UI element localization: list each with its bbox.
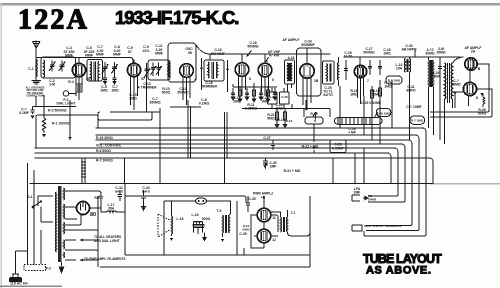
transformer T-3 IF	[204, 60, 224, 81]
wire y120 box	[100, 112, 152, 120]
svg-text:C-26: C-26	[281, 95, 288, 99]
wire output tubes right	[453, 57, 493, 112]
bus wire screen y144	[100, 144, 405, 184]
svg-text:56: 56	[188, 51, 192, 55]
svg-text:R-2 50000Ω: R-2 50000Ω	[48, 109, 67, 113]
svg-text:R-1 10000Ω: R-1 10000Ω	[52, 122, 71, 126]
wire nested drops	[364, 184, 426, 237]
speaker field coil L-16	[171, 216, 174, 234]
svg-text:L-18: L-18	[192, 213, 199, 217]
svg-text:R-6 600Ω: R-6 600Ω	[96, 149, 111, 153]
svg-text:122A: 122A	[18, 5, 89, 36]
tube V6 AVC 2B7	[300, 64, 314, 78]
main B+ line y183.5	[30, 183, 432, 185]
frame rules (decorative)	[0, 3, 500, 5]
svg-text:TRIM: TRIM	[432, 75, 440, 79]
wire ladder left entry	[36, 115, 38, 148]
svg-text:R-22 + MΩ: R-22 + MΩ	[302, 145, 319, 149]
svg-text:0.1MF: 0.1MF	[19, 111, 29, 115]
svg-text:2B: 2B	[314, 79, 319, 83]
capacitor C-22	[273, 88, 277, 100]
svg-text:2A: 2A	[471, 50, 476, 54]
svg-text:1MΩ: 1MΩ	[261, 100, 269, 104]
svg-text:T-9: T-9	[217, 209, 222, 213]
transformer T-2	[87, 60, 102, 82]
capacitor box C-28b	[330, 140, 346, 153]
bus wire heater A y128	[96, 128, 426, 184]
wire P1P2 links	[251, 196, 264, 248]
tube V9 output 2A5	[463, 82, 476, 95]
svg-text:C-35: C-35	[239, 232, 246, 236]
svg-text:R-31 + MΩ: R-31 + MΩ	[284, 169, 301, 173]
fuse block dashed	[24, 265, 46, 271]
resistor R-13	[266, 86, 269, 102]
svg-text:MMF: MMF	[96, 53, 104, 57]
svg-text:80: 80	[90, 212, 96, 218]
ground (antenna coil)	[32, 81, 41, 85]
resistor R-19	[371, 86, 374, 104]
choke L-9	[410, 59, 411, 73]
svg-text:4-18: 4-18	[288, 56, 295, 60]
wire antenna stem	[35, 48, 37, 59]
svg-text:8MFD: 8MFD	[115, 189, 124, 193]
trimmer C-4	[102, 62, 109, 74]
svg-text:C-? 10MF: C-? 10MF	[406, 105, 421, 109]
svg-text:R-15: R-15	[286, 119, 293, 123]
vertical pair x188	[188, 100, 191, 158]
capacitor C-3	[42, 95, 46, 133]
svg-text:TRIMMER: TRIMMER	[201, 85, 217, 89]
tube V2 1st det 57	[127, 63, 140, 76]
vertical x340	[339, 86, 341, 128]
svg-text:25MΩ: 25MΩ	[436, 51, 446, 55]
svg-text:7: 7	[367, 79, 369, 83]
svg-text:SPKR: SPKR	[368, 197, 377, 201]
grid clip V5	[266, 57, 269, 62]
bus wire cathode y148	[35, 148, 398, 184]
coil T-1 secondary	[44, 60, 45, 77]
svg-text:1933-IF.175-K.C.: 1933-IF.175-K.C.	[115, 7, 238, 28]
coil L-osc	[167, 62, 170, 78]
tube V5 2nd det 57	[258, 63, 272, 77]
vertical pair x225	[225, 112, 228, 184]
svg-text:30MΩ: 30MΩ	[425, 52, 435, 56]
capacitor C-27	[271, 140, 275, 150]
svg-text:T-1: T-1	[291, 211, 296, 215]
trimmer C-6	[111, 62, 118, 74]
resistor box R-24b	[386, 76, 402, 84]
wire x124.6 drop	[124, 158, 126, 184]
tube V4 IF 58	[235, 63, 249, 77]
wire V7 top	[359, 57, 361, 66]
resistor R-11	[238, 86, 241, 102]
capacitor C-29	[438, 57, 442, 140]
svg-text:11: 11	[272, 216, 276, 220]
svg-text:0.05MF: 0.05MF	[332, 147, 344, 151]
resistor R-12	[252, 86, 255, 102]
wire x125 drop	[124, 184, 126, 213]
wire B+ feed right	[244, 196, 248, 255]
svg-text:A TRIMMER: A TRIMMER	[137, 86, 157, 90]
wire top rail left y57.5	[36, 58, 133, 64]
capacitor C-34	[141, 190, 146, 210]
svg-text:2MΩ: 2MΩ	[129, 97, 137, 101]
choke L-17	[107, 211, 116, 212]
capacitor C-2 left	[30, 107, 34, 115]
potentiometer R-22	[305, 117, 323, 124]
svg-text:CONNECTION: CONNECTION	[26, 94, 44, 98]
svg-text:C-1: C-1	[28, 67, 34, 71]
capacitor C-35	[237, 196, 250, 255]
svg-text:C-29 0.02MF: C-29 0.02MF	[361, 101, 381, 105]
variable capacitor C-1	[49, 61, 56, 72]
svg-text:1MΩ: 1MΩ	[383, 52, 391, 56]
variable capacitor C-2	[59, 61, 66, 72]
transformer L-18	[194, 221, 203, 222]
shield box V6	[297, 48, 322, 96]
svg-text:500MΩ: 500MΩ	[247, 45, 258, 49]
grid clip C-18	[247, 51, 252, 57]
resistor R-14	[275, 108, 279, 128]
svg-text:C-24: C-24	[269, 95, 276, 99]
svg-text:R-23: R-23	[310, 112, 317, 116]
svg-text:MMF: MMF	[85, 54, 93, 58]
svg-text:8MFD: 8MFD	[142, 189, 151, 193]
svg-text:2MΩ: 2MΩ	[233, 100, 241, 104]
svg-text:8: 8	[249, 77, 251, 81]
connector TO SPKR	[352, 195, 368, 201]
svg-text:20MΩ: 20MΩ	[371, 93, 381, 97]
wire output to P tubes	[271, 210, 288, 236]
capacitor C-17	[368, 60, 372, 75]
svg-text:115 AC 60~: 115 AC 60~	[10, 282, 29, 286]
wire heater loop 1	[65, 230, 98, 240]
svg-text:1-M: 1-M	[49, 83, 55, 87]
svg-text:1MΩ: 1MΩ	[384, 85, 392, 89]
T-7 secondary heater 2	[63, 240, 66, 249]
coil T-1 primary	[36, 59, 37, 80]
svg-text:C-30 1MΩ: C-30 1MΩ	[377, 112, 392, 116]
bus wire heater B y135	[96, 135, 419, 184]
resistor R-15	[283, 108, 287, 128]
wire top rail right y57	[344, 56, 460, 58]
svg-text:S-1: S-1	[27, 195, 32, 199]
capacitor C-7 to ground	[112, 74, 116, 84]
wire V1 plate top	[78, 58, 80, 64]
svg-text:1MΩ: 1MΩ	[275, 107, 283, 111]
wire right mid verticals	[372, 50, 415, 144]
svg-text:12: 12	[272, 238, 276, 242]
T-7 secondary heater 1	[63, 222, 66, 234]
wire T-3 right lead	[227, 60, 229, 92]
pilot lamp P-1	[63, 91, 69, 97]
capacitor C-25b	[344, 60, 348, 80]
svg-text:DIAL LIGHT: DIAL LIGHT	[57, 102, 77, 106]
svg-text:0.1MΩ: 0.1MΩ	[199, 102, 210, 106]
transformer T-4	[285, 60, 295, 84]
wire V3 cathode	[170, 106, 201, 108]
svg-text:C-27: C-27	[263, 136, 270, 140]
svg-text:L-16: L-16	[177, 217, 184, 221]
tube P2 output 45	[257, 229, 271, 243]
resistor R-28	[469, 94, 485, 107]
svg-text:1MF: 1MF	[270, 165, 277, 169]
svg-text:RECT: RECT	[94, 196, 104, 200]
svg-text:R-? 1MΩ: R-? 1MΩ	[388, 79, 401, 83]
wire y110.5	[242, 104, 330, 117]
svg-text:8MFD: 8MFD	[406, 89, 416, 93]
wire V5 grid cap	[264, 54, 266, 63]
svg-text:+ MF: + MF	[348, 131, 356, 135]
svg-text:5: 5	[272, 78, 274, 82]
bus wire AVC y140	[96, 140, 412, 184]
resistor R-4 cathode	[76, 84, 82, 92]
svg-text:350MΩ: 350MΩ	[149, 101, 160, 105]
resistor R-20	[379, 80, 382, 104]
T-7 secondary heater 3	[63, 252, 66, 258]
capacitor C-8 trimmer	[144, 63, 150, 79]
svg-text:0.25MΩ: 0.25MΩ	[245, 107, 257, 111]
capacitor C-20	[245, 88, 249, 100]
tube P1 output 45	[257, 208, 271, 222]
resistor R-8 divider	[81, 158, 125, 184]
svg-text:TO PWR AMPL FILAMENTS: TO PWR AMPL FILAMENTS	[84, 257, 126, 261]
svg-text:3: 3	[194, 78, 196, 82]
svg-text:58: 58	[86, 77, 90, 81]
svg-text:R-? 1MΩ: R-? 1MΩ	[411, 119, 424, 123]
svg-text:1MΩ: 1MΩ	[111, 89, 119, 93]
svg-text:AS ABOVE.: AS ABOVE.	[366, 265, 432, 277]
wire V6 top	[306, 48, 308, 64]
svg-text:VOL. CONTROL: VOL. CONTROL	[96, 144, 122, 148]
svg-text:MMF: MMF	[65, 54, 73, 58]
interstage transformer T-6a	[428, 60, 431, 87]
svg-text:R-14: R-14	[277, 118, 284, 122]
svg-text:500Ω: 500Ω	[242, 227, 250, 231]
bus wire B+ y153	[35, 153, 391, 184]
svg-text:500Ω: 500Ω	[162, 91, 171, 95]
ground arrow transformer	[61, 262, 63, 266]
shield box tuning section 1	[41, 57, 76, 78]
wire grid rail y54	[196, 45, 330, 60]
svg-text:+B: +B	[261, 196, 266, 200]
AC plug	[10, 274, 22, 282]
svg-text:10-50: 10-50	[344, 55, 353, 59]
wire x489 down corner	[430, 110, 492, 117]
wire V4 grid cap	[241, 54, 243, 62]
svg-text:500MMF: 500MMF	[301, 43, 314, 47]
svg-text:1MΩ: 1MΩ	[100, 89, 108, 93]
tube V7 AF 56	[354, 65, 366, 77]
svg-text:AUTO: AUTO	[323, 93, 333, 97]
svg-text:500MΩ: 500MΩ	[363, 51, 374, 55]
resistor row below V4V5: C-19	[231, 88, 235, 100]
wire AC lines	[16, 163, 54, 274]
svg-text:1MF: 1MF	[354, 191, 361, 195]
variable capacitor C-12	[156, 63, 162, 77]
svg-text:REST SUPPLY TERMINALS: REST SUPPLY TERMINALS	[364, 224, 401, 228]
shield box oscillator	[168, 43, 196, 82]
svg-text:500Ω: 500Ω	[202, 217, 211, 221]
svg-text:1MΩ: 1MΩ	[350, 93, 358, 97]
svg-text:25MΩ: 25MΩ	[451, 83, 461, 87]
svg-text:R-7 2000Ω: R-7 2000Ω	[96, 159, 113, 163]
transformer T-9	[222, 215, 225, 233]
capacitor C-30 below bus	[263, 158, 268, 168]
resistor R-1	[69, 100, 71, 140]
svg-text:47 PM: 47 PM	[269, 54, 279, 58]
connector rest supply terminals	[352, 225, 362, 231]
tube glass highlights	[78, 60, 472, 240]
svg-text:R-16 300Ω: R-16 300Ω	[96, 136, 113, 140]
shield box oscillator tuning	[148, 60, 170, 80]
svg-text:10H: 10H	[396, 67, 403, 71]
wire rect output	[101, 205, 107, 212]
T-7 secondary HV main	[63, 204, 66, 219]
vertical x316 down from V6	[305, 100, 307, 111]
wire heater loop 2	[65, 250, 98, 260]
wire ladder drops	[160, 148, 364, 184]
tube V8 output 2A5	[465, 58, 477, 70]
wire T-3 left lead	[201, 58, 203, 90]
switch S-1	[32, 206, 35, 209]
svg-text:504Ω: 504Ω	[478, 112, 487, 116]
wire left feed y107	[33, 96, 77, 107]
svg-text:57: 57	[141, 77, 145, 81]
tube V3 OSC 56	[180, 64, 194, 78]
bus wire ground y158	[35, 158, 433, 184]
svg-text:41%: 41%	[143, 49, 150, 53]
svg-text:F-2: F-2	[46, 267, 51, 271]
T-7 primary winding	[55, 192, 58, 252]
resistor box R-27	[410, 116, 425, 124]
transformer T-5	[323, 61, 335, 84]
capacitor C-26 box	[280, 92, 290, 104]
capacitor C-32	[118, 190, 122, 201]
svg-text:87: 87	[128, 50, 132, 54]
svg-text:AND DIAL LIGHT: AND DIAL LIGHT	[94, 239, 120, 243]
wire bottom box outline	[98, 196, 310, 267]
svg-text:C-35: C-35	[248, 197, 255, 201]
antenna	[33, 41, 41, 49]
svg-text:AF AMPLF: AF AMPLF	[282, 38, 299, 42]
svg-text:5MΩ: 5MΩ	[267, 117, 275, 121]
resistor box R-26	[376, 109, 391, 117]
capacitor C-5 to ground	[103, 74, 107, 84]
capacitor C-21	[259, 88, 263, 100]
svg-text:MMF: MMF	[155, 52, 163, 56]
rectifier tube 80	[77, 202, 90, 215]
transformer T-6 output driver	[445, 63, 446, 99]
tube V1 RF 58	[72, 63, 85, 76]
wire row bus y86	[233, 83, 277, 87]
power transformer T-7 core	[58, 186, 61, 262]
svg-text:MMF: MMF	[113, 53, 121, 57]
wire y112 rail	[98, 108, 160, 180]
wire rect filament loop	[65, 214, 81, 225]
svg-text:R-4: R-4	[68, 80, 74, 84]
wire V2 grid top	[133, 60, 135, 63]
svg-text:AB NFPB: AB NFPB	[401, 48, 417, 52]
wire pot down	[313, 124, 315, 153]
vertical x364	[363, 96, 365, 135]
svg-text:500MΩ: 500MΩ	[177, 91, 188, 95]
wire speaker feed y201	[164, 201, 231, 255]
variable capacitor C-11	[150, 63, 156, 77]
wire left feed y115	[38, 112, 98, 128]
vertical x288	[272, 88, 284, 109]
capacitor C-18b	[378, 60, 382, 75]
wire top of bottom box	[125, 190, 244, 196]
T-7 secondary HV top	[63, 188, 66, 200]
connector P-6	[196, 198, 207, 204]
speaker cone	[158, 214, 170, 237]
wire C-8 lead	[146, 79, 148, 112]
capacitor C-24 box	[268, 92, 278, 104]
wire rect plate loop	[65, 191, 101, 208]
potentiometer volume control bar	[335, 118, 383, 125]
svg-text:30H: 30H	[108, 207, 115, 211]
output transformer T-10	[280, 217, 283, 232]
svg-text:500 MMF: 500 MMF	[211, 52, 225, 56]
